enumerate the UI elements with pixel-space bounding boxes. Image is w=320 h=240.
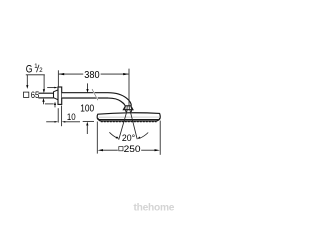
svg-text:10: 10 [67, 112, 76, 122]
swivel axis left line [119, 110, 128, 140]
svg-text:380: 380 [84, 70, 100, 81]
ball ridges [125, 106, 132, 109]
svg-text:2: 2 [39, 68, 43, 74]
dimension 380 arrowheads [59, 73, 129, 75]
ball joint [123, 106, 133, 110]
dimension text square 250 [119, 147, 123, 151]
dimension 250 line and arrows [102, 149, 118, 151]
svg-text:65: 65 [31, 90, 40, 101]
wall reference arrow lower [45, 103, 54, 105]
wall plate escutcheon [58, 87, 62, 104]
swivel axis right line [130, 110, 137, 139]
head side shading band [99, 116, 159, 118]
dimension 10 line and arrows [46, 121, 54, 123]
swivel arc left [109, 132, 117, 138]
dimension 380 line [59, 73, 129, 75]
G1/2 bracket [26, 75, 45, 90]
ball neck [124, 110, 127, 112]
flange size label square 65 [24, 92, 29, 97]
svg-text:G: G [26, 63, 33, 75]
dimension 100 lower extension [83, 120, 94, 122]
shower head body [97, 113, 160, 120]
head bottom edge band [98, 118, 160, 121]
swivel arc right [140, 133, 148, 139]
shower arm tube [62, 93, 132, 106]
dimension 100 upper arrow [87, 83, 89, 89]
mounting cone [54, 90, 59, 100]
supply pipe with G1/2 thread [38, 93, 53, 98]
arm inner shading [62, 94, 108, 98]
spray nozzles row [101, 120, 157, 122]
svg-text:20°: 20° [122, 133, 136, 143]
svg-text:100: 100 [80, 103, 94, 114]
dimension 380 extension line left [57, 70, 59, 87]
G1/2 bracket arrowheads [26, 85, 28, 89]
svg-text:thehome: thehome [134, 202, 175, 213]
thread lower arrow [42, 98, 44, 102]
arm break symbol [92, 89, 98, 100]
dimension 100 lower arrow [86, 122, 88, 126]
dimension 250 extension lines [96, 122, 98, 154]
svg-text:250: 250 [124, 144, 141, 155]
cone foot arrow [54, 102, 56, 105]
dimension 380 extension line right [128, 69, 130, 110]
wall reference arrow upper [47, 87, 55, 89]
dimension 10 extension lines [57, 108, 59, 122]
